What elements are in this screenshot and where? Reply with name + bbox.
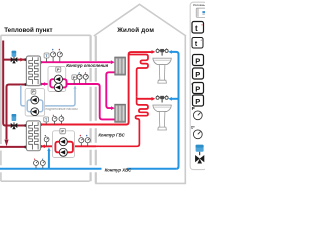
legend icon: controller [196, 8, 206, 17]
port stubs [25, 58, 27, 61]
pump N1 (heating, upper) [54, 75, 62, 83]
faucet (lower floor mixer) [156, 95, 168, 102]
gauges on DHW circulation (house side) [79, 135, 90, 146]
heat point top wall [1, 34, 91, 36]
building outlines [1, 4, 186, 183]
cold water (ХВС) piping [0, 52, 179, 169]
svg-text:Условные обозначен: Условные обозначен [193, 3, 205, 7]
pump N5 (make-up, upper) [31, 96, 39, 104]
gauges on cold water main [34, 159, 46, 169]
legend icon: pressure sensor box P (4) [193, 95, 204, 106]
house right wall [184, 36, 186, 184]
pump N2 (heating, lower) [54, 83, 62, 91]
heating circulation pump group [48, 67, 67, 92]
wire: make-up parallel pump loop [27, 100, 43, 112]
faucet (upper floor mixer) [156, 48, 168, 55]
wire: DHW supply from HX2 to house riser [41, 52, 151, 124]
radiator R2 (lower floor) [115, 105, 118, 123]
heat exchanger T2 (DHW circuit) [25, 121, 42, 151]
DHW circulation pump group [53, 128, 75, 157]
sinks and faucets [153, 48, 171, 83]
towel radiator loop (upper floor) [129, 55, 148, 97]
heat exchanger T1 (heating circuit) [25, 56, 42, 86]
svg-text:P: P [73, 76, 76, 80]
heat point floor [1, 180, 90, 182]
house roof [94, 4, 186, 36]
coils [29, 57, 38, 84]
arrow: heating return into HX1 [41, 82, 45, 86]
wire: heating parallel pump loop [50, 79, 66, 87]
wire: cold water feed to DHW circulation [48, 150, 50, 169]
wire: DHW circulation return to pump loop [73, 145, 96, 147]
house left wall [95, 36, 97, 184]
svg-text:Контур ГВС: Контур ГВС [98, 133, 125, 138]
wire: radiator 1 to radiator 2 connector [106, 72, 115, 108]
wire: cold water main [0, 168, 176, 170]
wire: heat network supply riser A [3, 41, 10, 126]
heating circuit piping [41, 62, 115, 119]
legend icon: pressure sensor box P (1) [193, 55, 204, 66]
sensor box P (heating pumps) [56, 67, 61, 72]
DHW pump group backdrop box [53, 131, 75, 158]
arrow: DHW circulation into HX2 [41, 145, 45, 149]
arrow: cold water up into DHW circulation [47, 147, 50, 151]
wire: DHW parallel pump loop [55, 142, 73, 153]
svg-text:Контур ХВС: Контур ХВС [105, 167, 132, 172]
gauge on DHW circulation before HX2 [44, 135, 49, 146]
heat point right wall [89, 35, 91, 181]
legend icon: pressure sensor box P (2) [193, 68, 204, 79]
wire: HX1 return to network riser B [7, 85, 25, 140]
arrow: hot water into lower faucet [152, 97, 156, 101]
sensor box P and gauges on heating return [72, 72, 88, 83]
legend panel [190, 2, 223, 169]
svg-text:Контур отопления: Контур отопления [66, 63, 108, 68]
washbasin (upper floor) [153, 58, 171, 64]
svg-text:P: P [195, 97, 200, 106]
svg-text:Жилой дом: Жилой дом [116, 27, 154, 34]
sensor box P (DHW pumps) [60, 128, 65, 133]
svg-text:P: P [57, 68, 60, 72]
house floor [95, 182, 186, 184]
valve K1: 3-way control valve with actuator [11, 51, 18, 64]
arrow: hot water into upper faucet [152, 50, 156, 54]
valve K2: 3-way control valve with actuator [11, 114, 18, 129]
washbasin pedestal (upper floor) [158, 65, 167, 84]
heating pump group backdrop box [48, 67, 66, 92]
make-up pump group (подпиточные насосы) [21, 85, 79, 116]
svg-text:P: P [195, 85, 200, 94]
arrow: heating supply into radiator 2 [111, 106, 115, 110]
wire: heating return riser from radiator 2 to pumps [67, 84, 115, 119]
radiator R1 (upper floor) [115, 57, 118, 75]
wire: supply branch to valve K2 and HX2 [11, 125, 25, 127]
svg-text:t: t [195, 24, 198, 33]
arrow: heating supply into radiator 1 [111, 60, 115, 64]
wire: pump loop to HX1 return stub [41, 83, 50, 85]
DHW (hot water) circuit piping [41, 52, 151, 146]
washbasin pedestal (lower floor) [158, 112, 167, 131]
heat point left wall [0, 35, 2, 181]
legend icon: temperature sensor box t° (small) [192, 38, 203, 49]
sensor box T and gauges on DHW supply [44, 115, 64, 125]
wire: DHW riser B with towel radiator loop (lower floor) and return elbow [96, 97, 148, 147]
wire: branch to lower faucet [137, 98, 152, 100]
svg-text:P: P [195, 70, 200, 79]
wire: supply line to valve K1 and HX1 [3, 59, 25, 61]
sensor box P (make-up) [31, 90, 36, 95]
legend icon: pressure sensor box P (3) with tick [191, 84, 193, 86]
pump N4 (DHW, lower) [59, 148, 67, 156]
arrow: flow down on network riser B [4, 140, 8, 147]
wire: cold water house riser [172, 52, 179, 169]
arrow: cold water into lower faucet [168, 97, 172, 101]
arrow: cold water into upper faucet [168, 50, 172, 54]
svg-text:P: P [192, 106, 195, 111]
svg-text:t°: t° [191, 125, 195, 130]
wire: make-up suction from network return [21, 85, 27, 106]
pump N6 (make-up, lower) [31, 108, 39, 116]
legend icon: temperature sensor box t° (large) [192, 22, 204, 34]
svg-text:P: P [195, 57, 200, 66]
svg-text:Тепловой пункт: Тепловой пункт [4, 27, 52, 34]
wire: network return line out [0, 146, 25, 148]
svg-text:подпиточные насосы: подпиточные насосы [46, 107, 79, 111]
svg-text:P: P [32, 90, 35, 94]
wire: make-up discharge to heating return [43, 88, 75, 106]
wire: heating supply HX1 to radiator 1 [41, 61, 111, 63]
pump N3 (DHW, upper) [59, 138, 67, 146]
sensor box T and gauges on heating supply [44, 49, 62, 62]
make-up group backdrop box [25, 89, 44, 116]
washbasin (lower floor) [153, 105, 171, 111]
legend icon: 3-way valve with actuator [196, 145, 204, 152]
arrow: supply flow into HX1 [20, 58, 24, 62]
